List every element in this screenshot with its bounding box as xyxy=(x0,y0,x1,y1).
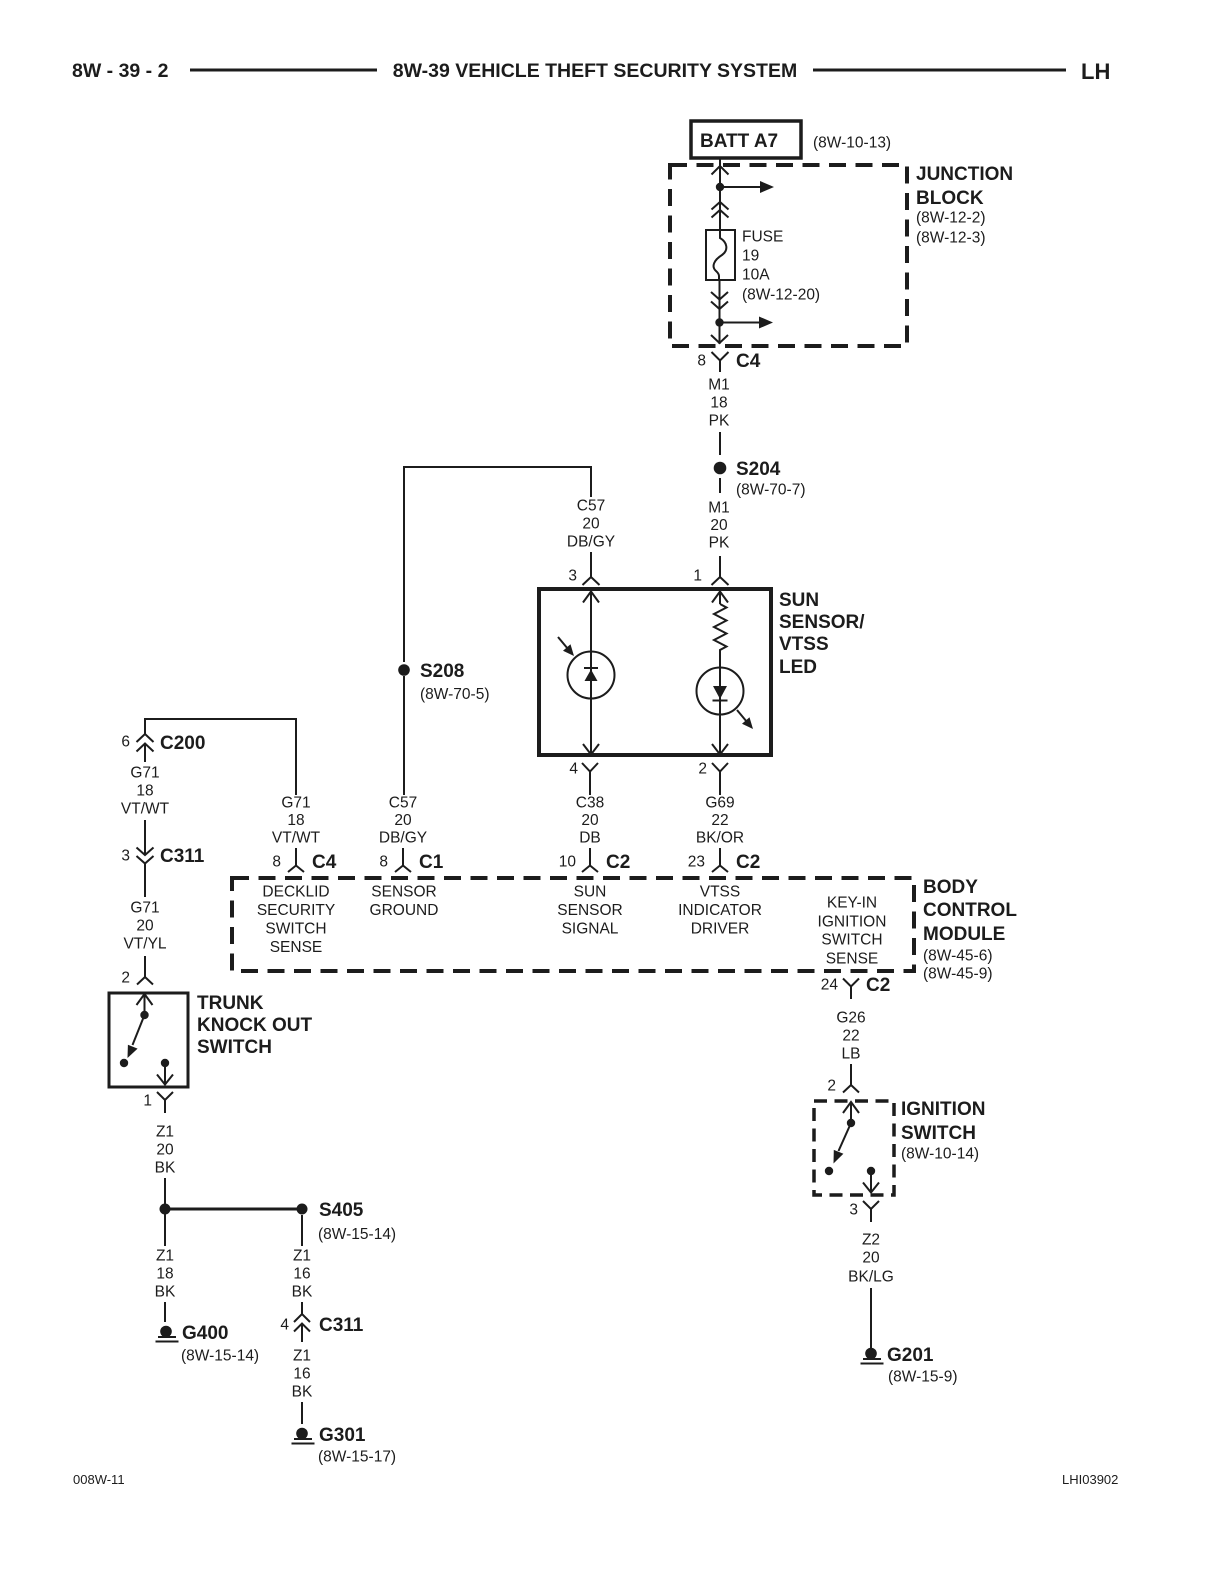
svg-text:20: 20 xyxy=(862,1250,880,1267)
ignition switch exit arrowhead xyxy=(863,1183,879,1193)
svg-text:SENSE: SENSE xyxy=(826,951,879,968)
trunk switch output wire xyxy=(164,1063,166,1084)
ground G301 xyxy=(292,1425,397,1466)
svg-text:G71: G71 xyxy=(130,900,159,917)
ignition switch left contact xyxy=(825,1167,833,1175)
fuse 19 xyxy=(706,230,735,280)
junction block label xyxy=(916,164,1013,247)
svg-text:C200: C200 xyxy=(160,733,205,754)
splice S405 xyxy=(297,1200,397,1243)
svg-text:FUSE: FUSE xyxy=(742,229,783,246)
trunk switch label xyxy=(197,993,312,1058)
ground G400 xyxy=(156,1323,260,1365)
svg-text:G69: G69 xyxy=(705,795,734,812)
wire to G201 xyxy=(870,1288,872,1348)
connector C4 pin 8 BCM xyxy=(272,848,336,873)
connector pin 2 trunk switch xyxy=(121,956,153,987)
inline connector C311 pin 4 xyxy=(280,1314,363,1342)
wire to S405 junction xyxy=(164,1178,166,1246)
svg-text:18: 18 xyxy=(136,783,153,800)
svg-text:(8W-45-9): (8W-45-9) xyxy=(923,966,992,983)
svg-text:(8W-70-5): (8W-70-5) xyxy=(420,686,489,703)
wire to G301 xyxy=(301,1402,303,1424)
svg-text:22: 22 xyxy=(711,812,728,829)
svg-text:DECKLID: DECKLID xyxy=(262,884,329,901)
wire S208 horizontal run xyxy=(404,467,591,662)
svg-text:SENSOR: SENSOR xyxy=(371,884,436,901)
svg-text:16: 16 xyxy=(293,1266,310,1283)
wire below S208 xyxy=(403,676,405,795)
junction block box xyxy=(670,165,907,346)
svg-text:DRIVER: DRIVER xyxy=(691,921,750,938)
svg-text:Z1: Z1 xyxy=(293,1348,311,1365)
sun sensor label xyxy=(779,590,865,678)
svg-text:VT/WT: VT/WT xyxy=(121,801,170,818)
svg-text:Z1: Z1 xyxy=(156,1248,174,1265)
svg-text:C38: C38 xyxy=(576,795,604,812)
svg-text:23: 23 xyxy=(688,854,705,871)
svg-text:20: 20 xyxy=(394,812,412,829)
svg-text:C57: C57 xyxy=(389,795,417,812)
wire resistor to LED xyxy=(719,654,721,754)
wire below fuse xyxy=(719,280,721,344)
svg-text:LHI03902: LHI03902 xyxy=(1062,1472,1118,1487)
svg-text:SIGNAL: SIGNAL xyxy=(562,921,619,938)
svg-text:G400: G400 xyxy=(182,1323,228,1344)
node BATT A7 xyxy=(691,121,801,158)
trunk switch exit arrowhead xyxy=(157,1075,173,1085)
connector C1 pin 8 BCM xyxy=(379,848,443,873)
svg-text:SUN: SUN xyxy=(779,590,819,611)
svg-text:BODY: BODY xyxy=(923,877,978,898)
svg-text:PK: PK xyxy=(709,413,730,430)
svg-text:KEY-IN: KEY-IN xyxy=(827,895,877,912)
trunk knock out switch box xyxy=(109,993,188,1087)
svg-text:PK: PK xyxy=(709,535,730,552)
svg-text:18: 18 xyxy=(287,812,304,829)
svg-text:4: 4 xyxy=(569,761,578,778)
trunk switch common contact xyxy=(140,1011,148,1019)
svg-text:(8W-12-20): (8W-12-20) xyxy=(742,287,820,304)
trunk switch entry arrowhead xyxy=(137,994,153,1005)
trunk switch left contact xyxy=(120,1059,128,1067)
svg-text:SWITCH: SWITCH xyxy=(901,1123,976,1144)
svg-text:6: 6 xyxy=(121,734,130,751)
wire label M1 18 PK xyxy=(708,377,730,430)
svg-text:C2: C2 xyxy=(736,852,760,873)
connector pin 4 below sun sensor xyxy=(569,761,598,796)
wire C200 horizontal run xyxy=(145,719,296,795)
svg-text:(8W-15-9): (8W-15-9) xyxy=(888,1369,957,1386)
svg-text:BK: BK xyxy=(155,1284,176,1301)
sun sensor box xyxy=(539,589,771,755)
svg-text:(8W-15-14): (8W-15-14) xyxy=(318,1226,396,1243)
arrowhead up at junction block top xyxy=(712,166,729,175)
wire label Z1 16 BK upper xyxy=(292,1248,313,1301)
svg-text:C4: C4 xyxy=(312,852,337,873)
junction dot left xyxy=(160,1204,171,1215)
ignition switch right contact xyxy=(867,1167,875,1175)
svg-text:(8W-15-17): (8W-15-17) xyxy=(318,1449,396,1466)
ignition switch common wire xyxy=(850,1102,852,1123)
svg-text:3: 3 xyxy=(121,848,130,865)
svg-text:VTSS: VTSS xyxy=(700,884,740,901)
wire label Z2 20 BK/LG xyxy=(848,1232,894,1286)
connector C2 pin 23 BCM xyxy=(688,848,761,873)
svg-text:8W-39 VEHICLE THEFT SECURITY S: 8W-39 VEHICLE THEFT SECURITY SYSTEM xyxy=(393,60,797,82)
svg-text:INDICATOR: INDICATOR xyxy=(678,902,762,919)
svg-text:10A: 10A xyxy=(742,267,770,284)
svg-text:M1: M1 xyxy=(708,500,730,517)
ignition switch entry arrowhead xyxy=(843,1102,859,1113)
svg-text:G71: G71 xyxy=(130,765,159,782)
photodiode D1 xyxy=(568,652,615,699)
wire label G26 22 LB xyxy=(836,1010,865,1063)
svg-text:Z1: Z1 xyxy=(156,1124,174,1141)
svg-text:(8W-12-3): (8W-12-3) xyxy=(916,230,985,247)
svg-text:18: 18 xyxy=(710,395,727,412)
svg-text:G26: G26 xyxy=(836,1010,865,1027)
body control module box xyxy=(232,878,914,971)
svg-text:GROUND: GROUND xyxy=(370,902,439,919)
svg-text:JUNCTION: JUNCTION xyxy=(916,164,1013,185)
ground G201 xyxy=(861,1345,958,1386)
wire label Z1 16 BK lower xyxy=(292,1348,313,1401)
svg-text:LED: LED xyxy=(779,657,817,678)
svg-text:IGNITION: IGNITION xyxy=(818,914,887,931)
connector pin 3 sun sensor xyxy=(568,552,599,585)
ignition switch box xyxy=(814,1101,894,1195)
feed arrow right upper xyxy=(720,181,774,193)
svg-text:C4: C4 xyxy=(736,351,761,372)
svg-text:8: 8 xyxy=(379,854,388,871)
svg-text:SENSOR: SENSOR xyxy=(557,902,622,919)
svg-text:BK/LG: BK/LG xyxy=(848,1269,894,1286)
wire label M1 20 PK xyxy=(708,500,730,552)
svg-text:18: 18 xyxy=(156,1266,173,1283)
connector pin 1 trunk switch xyxy=(143,1092,173,1113)
svg-text:DB/GY: DB/GY xyxy=(567,534,615,551)
svg-text:G71: G71 xyxy=(281,795,310,812)
svg-text:LH: LH xyxy=(1081,59,1110,84)
wire label Z1 20 BK xyxy=(155,1124,176,1177)
svg-text:C57: C57 xyxy=(577,498,605,515)
inline connector C311 pin 3 xyxy=(121,846,204,897)
svg-text:20: 20 xyxy=(136,918,154,935)
header left rule xyxy=(190,69,377,72)
svg-text:TRUNK: TRUNK xyxy=(197,993,264,1014)
junction node dot lower xyxy=(715,318,723,326)
svg-text:SWITCH: SWITCH xyxy=(821,932,882,949)
svg-text:SUN: SUN xyxy=(574,884,607,901)
svg-text:CONTROL: CONTROL xyxy=(923,900,1017,921)
svg-text:SWITCH: SWITCH xyxy=(265,921,326,938)
svg-text:24: 24 xyxy=(821,977,839,994)
svg-text:(8W-15-14): (8W-15-14) xyxy=(181,1348,259,1365)
svg-text:C2: C2 xyxy=(606,852,630,873)
wire to G400 xyxy=(164,1302,166,1322)
wire label G71 18 VT/WT right xyxy=(272,795,321,847)
connector pin 2 ignition switch xyxy=(827,1064,859,1095)
BCM pin label key-in ignition switch sense xyxy=(818,895,887,968)
wire label C57 20 DB/GY lower xyxy=(379,795,427,847)
svg-text:BK: BK xyxy=(155,1160,176,1177)
resistor branch wire top xyxy=(719,592,721,604)
svg-text:8: 8 xyxy=(272,854,281,871)
connector pin 1 sun sensor xyxy=(693,556,728,585)
trunk switch common wire xyxy=(144,994,146,1015)
svg-text:3: 3 xyxy=(849,1202,858,1219)
fuse label xyxy=(742,229,820,304)
body control module label xyxy=(923,877,1017,983)
svg-text:BK: BK xyxy=(292,1284,313,1301)
connector C4 pin 8 xyxy=(697,351,760,372)
svg-text:(8W-70-7): (8W-70-7) xyxy=(736,482,805,499)
trunk switch right contact xyxy=(161,1059,169,1067)
svg-text:VT/YL: VT/YL xyxy=(123,936,166,953)
svg-text:BATT A7: BATT A7 xyxy=(700,131,778,152)
svg-text:KNOCK OUT: KNOCK OUT xyxy=(197,1015,312,1036)
svg-text:2: 2 xyxy=(121,970,130,987)
connector C2 pin 24 xyxy=(821,975,891,999)
svg-text:G201: G201 xyxy=(887,1345,934,1366)
svg-text:BK/OR: BK/OR xyxy=(696,830,744,847)
svg-text:20: 20 xyxy=(156,1142,174,1159)
svg-text:008W-11: 008W-11 xyxy=(73,1472,125,1487)
svg-text:MODULE: MODULE xyxy=(923,924,1005,945)
BCM pin label decklid security switch sense xyxy=(257,884,335,957)
wire label G71 18 VT/WT left xyxy=(121,765,170,818)
svg-text:S204: S204 xyxy=(736,459,781,480)
photodiode branch wire xyxy=(590,592,592,754)
svg-text:(8W-10-14): (8W-10-14) xyxy=(901,1146,979,1163)
svg-text:BK: BK xyxy=(292,1384,313,1401)
header right rule xyxy=(813,69,1066,72)
BCM pin label sensor ground xyxy=(370,884,439,920)
svg-text:VTSS: VTSS xyxy=(779,634,829,655)
BCM pin label VTSS indicator driver xyxy=(678,884,762,938)
svg-text:(8W-45-6): (8W-45-6) xyxy=(923,948,992,965)
svg-text:DB: DB xyxy=(579,830,601,847)
wire label C38 20 DB xyxy=(576,795,604,847)
wire label G69 22 BK/OR xyxy=(696,795,744,847)
svg-text:VT/WT: VT/WT xyxy=(272,830,321,847)
svg-text:8W - 39 - 2: 8W - 39 - 2 xyxy=(72,60,169,82)
svg-text:C1: C1 xyxy=(419,852,444,873)
svg-text:G301: G301 xyxy=(319,1425,366,1446)
svg-text:Z2: Z2 xyxy=(862,1232,880,1249)
inline connector C200 pin 6 xyxy=(121,733,205,762)
connector C2 pin 10 BCM xyxy=(559,848,631,873)
svg-text:16: 16 xyxy=(293,1366,310,1383)
ignition switch output wire xyxy=(870,1171,872,1192)
LED VTSS xyxy=(697,668,744,715)
svg-text:C2: C2 xyxy=(866,975,890,996)
photodiode light arrow xyxy=(558,637,574,656)
svg-text:1: 1 xyxy=(693,568,702,585)
wire batt feed into junction block xyxy=(719,158,721,230)
wire below S405 xyxy=(301,1215,303,1246)
ignition switch common contact xyxy=(847,1119,855,1127)
svg-text:S405: S405 xyxy=(319,1200,364,1221)
svg-text:Z1: Z1 xyxy=(293,1248,311,1265)
arrowhead up photodiode branch xyxy=(583,592,599,603)
ignition switch blade xyxy=(834,1123,852,1164)
svg-text:LB: LB xyxy=(842,1046,861,1063)
arrowhead down photodiode branch xyxy=(583,744,599,755)
arrowhead down resistor branch xyxy=(712,744,728,755)
trunk switch blade xyxy=(128,1015,145,1058)
connector pin 3 ignition switch xyxy=(849,1201,879,1222)
svg-text:SENSOR/: SENSOR/ xyxy=(779,612,865,633)
wire to splice S204 xyxy=(719,432,721,455)
splice S208 xyxy=(398,661,489,703)
wire label Z1 18 BK xyxy=(155,1248,176,1301)
wire above C311 xyxy=(144,820,146,855)
svg-text:IGNITION: IGNITION xyxy=(901,1099,985,1120)
svg-text:3: 3 xyxy=(568,568,577,585)
ignition switch label xyxy=(901,1099,985,1163)
BCM pin label sun sensor signal xyxy=(557,884,622,938)
svg-text:BLOCK: BLOCK xyxy=(916,188,984,209)
svg-text:1: 1 xyxy=(143,1093,152,1110)
svg-text:(8W-12-2): (8W-12-2) xyxy=(916,210,985,227)
svg-text:10: 10 xyxy=(559,854,577,871)
feed arrow right lower xyxy=(720,317,774,329)
svg-text:20: 20 xyxy=(582,516,600,533)
svg-text:C311: C311 xyxy=(319,1315,364,1336)
svg-text:SECURITY: SECURITY xyxy=(257,902,335,919)
svg-text:19: 19 xyxy=(742,248,759,265)
inline connector chevrons above fuse xyxy=(712,202,729,218)
svg-text:2: 2 xyxy=(698,761,707,778)
resistor branch arrowhead up xyxy=(712,592,728,603)
svg-text:C311: C311 xyxy=(160,846,205,867)
svg-text:20: 20 xyxy=(581,812,599,829)
svg-text:20: 20 xyxy=(710,517,728,534)
wire label C57 20 DB/GY upper xyxy=(567,498,615,551)
LED emission arrow xyxy=(737,710,753,729)
junction node dot upper xyxy=(716,183,724,191)
resistor R1 xyxy=(714,604,727,654)
connector pin 2 below sun sensor xyxy=(698,761,728,796)
svg-text:2: 2 xyxy=(827,1078,836,1095)
svg-text:8: 8 xyxy=(697,353,706,370)
wire S405 horizontal xyxy=(165,1208,302,1211)
wire above C311 pin 4 xyxy=(301,1302,303,1314)
arrowhead down exit junction block xyxy=(711,335,728,343)
svg-text:M1: M1 xyxy=(708,377,730,394)
svg-text:22: 22 xyxy=(842,1028,859,1045)
svg-text:SENSE: SENSE xyxy=(270,939,323,956)
svg-text:(8W-10-13): (8W-10-13) xyxy=(813,135,891,152)
svg-text:S208: S208 xyxy=(420,661,464,682)
inline connector chevrons below fuse xyxy=(711,292,728,309)
svg-text:DB/GY: DB/GY xyxy=(379,830,427,847)
wire stub below S204 xyxy=(719,478,721,493)
svg-text:SWITCH: SWITCH xyxy=(197,1037,272,1058)
svg-text:4: 4 xyxy=(280,1317,289,1334)
wire label G71 20 VT/YL xyxy=(123,900,166,953)
splice S204 xyxy=(714,459,806,499)
